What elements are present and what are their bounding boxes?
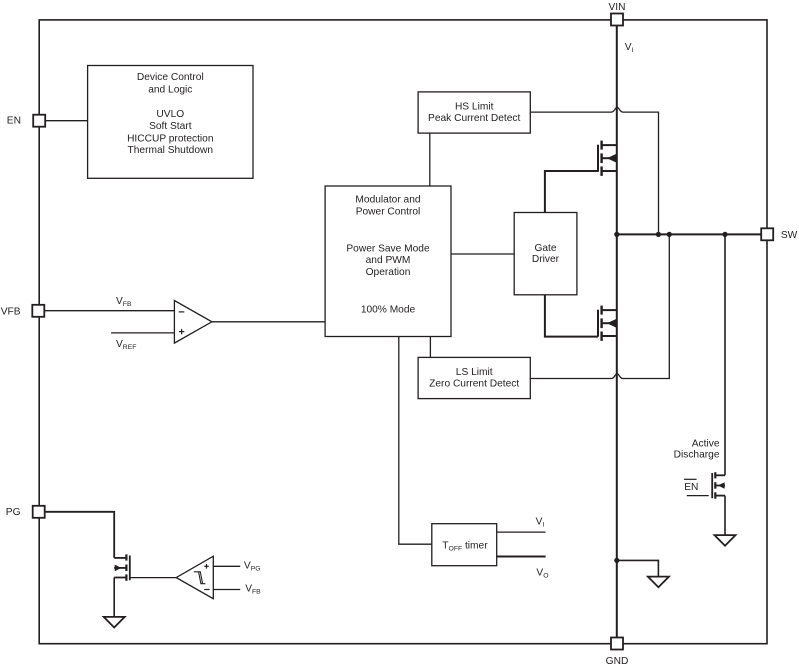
node junction: discharge branch at SW line: [722, 232, 727, 237]
pin SW: [761, 228, 797, 241]
ground symbol below PG FET: [104, 617, 125, 628]
pin PG: [6, 506, 45, 518]
label Active Discharge: [674, 439, 720, 461]
transistor Q1 high-side NFET: [598, 141, 617, 176]
svg-text:VIN: VIN: [609, 2, 626, 13]
wire SW to discharge FET: [724, 234, 726, 475]
wire TOFF timer VO input: [497, 556, 546, 558]
wire VREF stub to op-amp non-inverting input: [111, 332, 174, 334]
svg-text:LS Limit: LS Limit: [456, 367, 493, 378]
transistor Q4 PG pull-down NFET, mirrored: [114, 554, 130, 580]
svg-text:Active: Active: [692, 439, 720, 450]
svg-text:Device Control: Device Control: [137, 72, 204, 83]
pin VFB: [1, 305, 45, 318]
svg-text:HS Limit: HS Limit: [455, 102, 494, 113]
wire VIN rail: [616, 26, 618, 638]
transistor Q2 low-side NFET: [598, 306, 617, 341]
op-amp U6 error comparator: [174, 301, 212, 344]
wire Gate Driver to LS gate: [545, 295, 598, 337]
svg-text:UVLO: UVLO: [156, 109, 184, 120]
svg-text:Gate: Gate: [534, 243, 556, 254]
svg-text:Thermal Shutdown: Thermal Shutdown: [128, 145, 214, 156]
wire VFB pin to op-amp inverting input: [44, 310, 174, 312]
node junction dot GND spur: [614, 558, 619, 563]
ground symbol below discharge FET: [715, 535, 736, 546]
wire op-amp output to Modulator: [212, 321, 325, 323]
svg-text:Soft Start: Soft Start: [149, 121, 192, 132]
wire HS Limit to SW sense, hop over rail: [530, 107, 658, 234]
svg-text:Modulator and: Modulator and: [355, 195, 420, 206]
svg-text:VFB: VFB: [1, 306, 21, 317]
svg-text:and Logic: and Logic: [148, 84, 192, 95]
wire HS Limit bottom to Modulator top: [429, 133, 431, 186]
svg-text:GND: GND: [606, 656, 629, 667]
svg-text:Peak Current Detect: Peak Current Detect: [428, 113, 520, 124]
wire Modulator bottom to LS Limit top: [429, 337, 431, 358]
wire Gate Driver to HS gate: [545, 171, 598, 213]
svg-text:100% Mode: 100% Mode: [361, 305, 416, 316]
pin EN: [7, 115, 45, 127]
svg-text:and PWM: and PWM: [366, 255, 411, 266]
block U5 LS Limit Zero Current Detect: [418, 357, 530, 398]
block U2 HS Limit Peak Current Detect: [418, 92, 530, 133]
wire PG FET source to ground: [113, 578, 115, 617]
svg-text:PG: PG: [6, 507, 21, 518]
label EN-bar net: [684, 479, 698, 493]
svg-text:Zero Current Detect: Zero Current Detect: [429, 378, 519, 389]
node junction: LS sense line at SW line: [667, 232, 672, 237]
wire EN pin to control block: [45, 120, 87, 122]
svg-text:Operation: Operation: [366, 267, 411, 278]
wire PG comparator output to PG FET gate: [130, 577, 176, 579]
wire PG pin to PG FET drain: [45, 512, 115, 558]
wire rail to ground spur: [617, 560, 659, 576]
svg-text:EN: EN: [7, 116, 21, 127]
wire VFB stub to comparator: [213, 589, 240, 591]
pin GND: [606, 638, 629, 667]
svg-text:Power Control: Power Control: [356, 206, 421, 217]
pin VIN: [609, 2, 626, 26]
node junction: VIN rail at SW line: [614, 232, 619, 237]
node junction: HS sense line at SW line: [656, 232, 661, 237]
wire Modulator bottom to TOFF timer: [399, 337, 432, 545]
ground symbol at rail spur: [648, 577, 669, 588]
wire SW node line: [617, 233, 761, 235]
block U7 TOFF timer: [432, 524, 497, 566]
transistor Q3 active discharge NFET: [712, 472, 725, 499]
block U4 Gate Driver: [514, 213, 577, 295]
svg-text:Driver: Driver: [532, 254, 560, 265]
svg-text:SW: SW: [781, 230, 798, 241]
wire TOFF timer VI input: [497, 531, 546, 533]
wire LS Limit to SW sense, hop over rail: [530, 234, 669, 378]
block U3 Modulator and Power Control: [325, 186, 451, 337]
svg-text:Power Save Mode: Power Save Mode: [346, 243, 430, 254]
wire discharge FET source to ground: [724, 496, 726, 535]
comparator U8 PG comparator with hysteresis: [176, 556, 213, 599]
block U1 Device Control and Logic: [88, 66, 253, 179]
svg-text:HICCUP protection: HICCUP protection: [127, 133, 213, 144]
wire Modulator to Gate Driver: [451, 253, 514, 255]
svg-text:EN: EN: [684, 482, 698, 493]
wire EN-bar to discharge gate: [687, 495, 709, 497]
svg-text:Discharge: Discharge: [674, 450, 720, 461]
wire VPG stub to comparator: [213, 565, 240, 567]
